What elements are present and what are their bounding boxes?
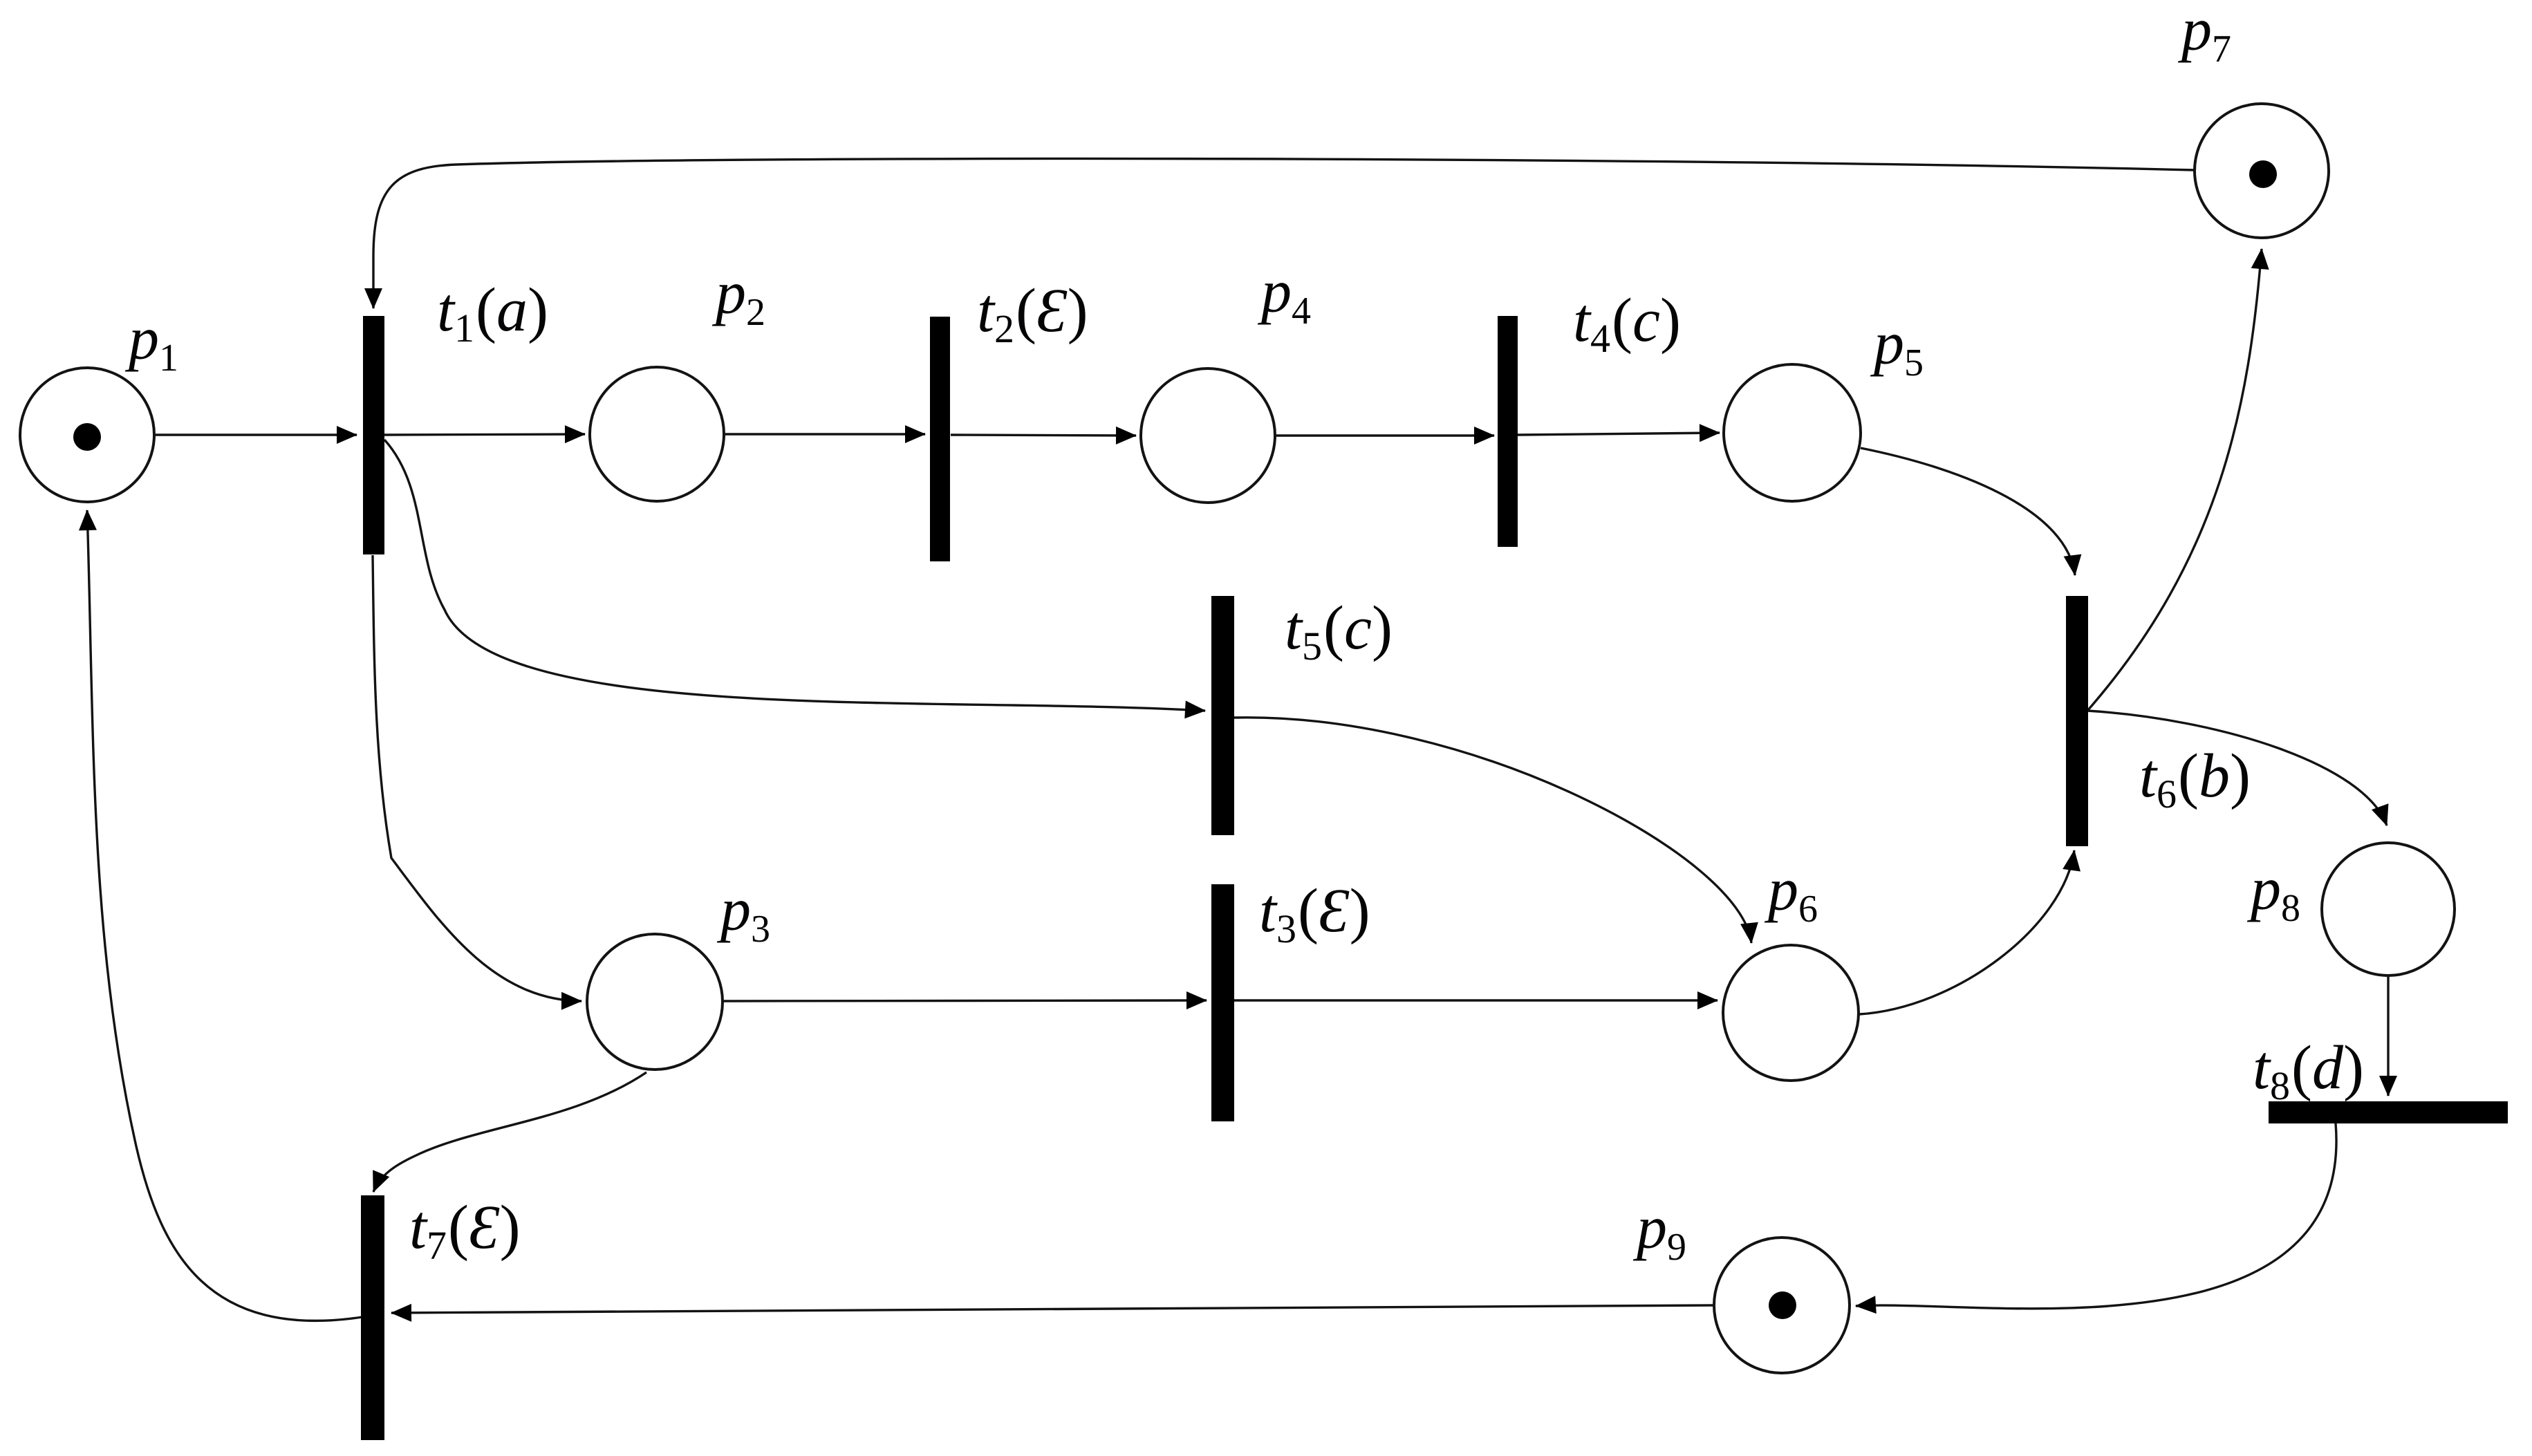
place p1 <box>20 368 154 502</box>
transition t4 <box>1498 316 1518 547</box>
svg-text:p8: p8 <box>2246 856 2300 930</box>
wire t5 to p6 <box>1234 718 1751 943</box>
place p3 <box>587 934 723 1070</box>
svg-text:p6: p6 <box>1764 857 1818 931</box>
transition t2 <box>930 317 950 561</box>
place p7 <box>2195 104 2329 238</box>
wire t6 to p8 <box>2087 711 2387 825</box>
wire t1 to p2 <box>384 434 585 435</box>
svg-text:t1(a): t1(a) <box>437 276 548 351</box>
wire p5 to t6 <box>1861 448 2075 575</box>
place p8 <box>2322 843 2455 976</box>
transition t7 <box>361 1195 384 1440</box>
svg-text:p9: p9 <box>1632 1195 1686 1269</box>
wire t2 to p4 <box>951 435 1136 436</box>
svg-text:p1: p1 <box>124 306 178 380</box>
transition t8 <box>2269 1101 2508 1123</box>
svg-text:p5: p5 <box>1870 310 1924 384</box>
svg-text:t6(b): t6(b) <box>2139 742 2251 816</box>
svg-text:t3(Ɛ): t3(Ɛ) <box>1259 877 1370 951</box>
wire p2 to t2 <box>725 433 925 435</box>
svg-text:p7: p7 <box>2177 0 2231 71</box>
svg-text:p3: p3 <box>716 877 770 951</box>
place p9 <box>1714 1238 1850 1373</box>
place p5 <box>1724 364 1861 501</box>
svg-text:t7(Ɛ): t7(Ɛ) <box>409 1193 521 1268</box>
wire p4 to t4 <box>1276 434 1494 436</box>
wire t6 to p7 <box>2087 249 2262 711</box>
svg-text:t8(d): t8(d) <box>2253 1034 2364 1108</box>
place p6 <box>1723 945 1859 1081</box>
wire t1 to t5 <box>384 440 1205 711</box>
svg-text:p2: p2 <box>711 260 765 334</box>
transition t3 <box>1211 884 1234 1121</box>
token in p7 <box>2249 160 2277 188</box>
wire p3 to t3 <box>723 1000 1207 1001</box>
wire p7 to t1 <box>373 158 2195 308</box>
svg-text:t5(c): t5(c) <box>1285 594 1393 669</box>
token in p9 <box>1769 1291 1796 1319</box>
wire p9 to t7 <box>391 1305 1713 1313</box>
wire p3 to t7 <box>373 1072 646 1192</box>
wire t7 to p1 <box>87 510 362 1320</box>
transition t6 <box>2066 596 2088 846</box>
wire p8 to t8 <box>2387 976 2389 1096</box>
wire t4 to p5 <box>1518 433 1720 435</box>
place p4 <box>1141 368 1275 503</box>
wire t8 to p9 <box>1856 1123 2336 1309</box>
svg-text:t4(c): t4(c) <box>1573 286 1681 361</box>
wire t1 to p3 <box>373 555 581 1001</box>
wire p6 to t6 <box>1859 850 2074 1014</box>
svg-text:t2(Ɛ): t2(Ɛ) <box>977 277 1088 351</box>
transition t1 <box>363 316 384 554</box>
wire p1 to t1 <box>156 433 357 436</box>
wire t3 to p6 <box>1234 999 1718 1001</box>
place p2 <box>590 367 724 501</box>
transition t5 <box>1211 596 1234 835</box>
svg-text:p4: p4 <box>1257 259 1311 333</box>
token in p1 <box>73 423 101 451</box>
